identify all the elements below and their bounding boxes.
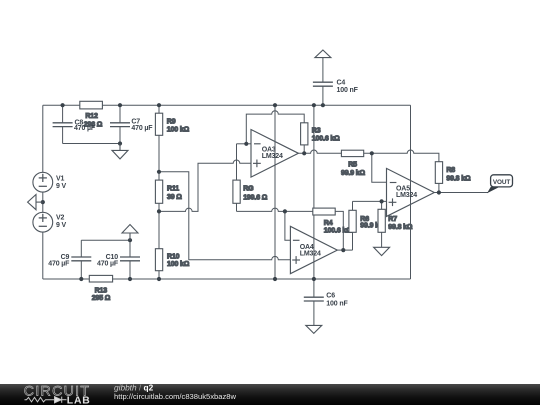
node OA3 output bbox=[302, 151, 306, 155]
node OA5 output bbox=[437, 190, 441, 194]
svg-text:LM324: LM324 bbox=[300, 251, 321, 258]
wire RG column bbox=[236, 144, 238, 212]
wire R7 column to ground bbox=[381, 201, 383, 247]
wire R4 right to OA4 output bbox=[335, 211, 343, 250]
node A R9/R11 bbox=[157, 170, 161, 174]
logo resistor zigzag bbox=[25, 397, 55, 402]
wire C4 stubs bbox=[322, 58, 324, 83]
wire R6 column bbox=[352, 201, 354, 250]
logo diode bbox=[55, 397, 67, 403]
wire R6/R7 tops to OA5 plus bbox=[353, 200, 387, 202]
svg-text:470 µF: 470 µF bbox=[97, 261, 119, 268]
svg-text:99.8 kΩ: 99.8 kΩ bbox=[388, 224, 413, 231]
resistor R6 bbox=[349, 210, 379, 232]
svg-text:39 Ω: 39 Ω bbox=[167, 194, 182, 201]
wire C9 stubs bbox=[80, 240, 82, 257]
svg-text:R12: R12 bbox=[85, 113, 98, 120]
ground left of V1/V2 node bbox=[28, 195, 43, 210]
ground below R7 bbox=[374, 247, 390, 255]
voltage source V1 bbox=[33, 172, 67, 192]
svg-text:100.6 kΩ: 100.6 kΩ bbox=[312, 136, 340, 143]
node OA3 minus bbox=[244, 142, 248, 146]
svg-text:R7: R7 bbox=[388, 216, 397, 223]
svg-text:LAB: LAB bbox=[67, 396, 91, 405]
wire C9 top to C10 top bbox=[81, 239, 130, 241]
wire right rail bbox=[410, 105, 412, 279]
ground above C10 bbox=[122, 225, 138, 241]
wire C8-C7 bottom bbox=[63, 143, 120, 145]
wire RG top to OA3 minus bbox=[237, 143, 252, 145]
svg-text:99.9 k: 99.9 k bbox=[360, 223, 379, 230]
voltage source V2 bbox=[33, 212, 67, 232]
wire mid vertical net x=275 bbox=[274, 105, 276, 279]
node bottom rail junctions bbox=[79, 277, 83, 281]
capacitor C8 bbox=[53, 120, 96, 133]
svg-text:R5: R5 bbox=[348, 161, 357, 168]
svg-text:RG: RG bbox=[243, 186, 254, 193]
node OA4 minus branch bbox=[283, 209, 287, 213]
node B R11/R10 bbox=[157, 209, 161, 213]
resistor R10 bbox=[155, 249, 189, 271]
node C10 top bbox=[128, 238, 132, 242]
svg-text:100 nF: 100 nF bbox=[337, 87, 359, 94]
svg-text:99.9 kΩ: 99.9 kΩ bbox=[341, 170, 366, 177]
wire C10 stubs bbox=[129, 240, 131, 257]
svg-text:LM324: LM324 bbox=[396, 192, 417, 199]
ground above C4 bbox=[315, 50, 331, 58]
svg-text:R11: R11 bbox=[167, 185, 179, 192]
resistor RG bbox=[233, 180, 268, 203]
capacitor C7 bbox=[110, 119, 153, 132]
svg-text:100.6 kΩ: 100.6 kΩ bbox=[324, 228, 352, 235]
wire bottom supply rail bbox=[43, 278, 411, 280]
resistor R11 bbox=[155, 180, 182, 203]
wire C8 stubs bbox=[62, 105, 64, 123]
wire OA4 output to R6 bottom bbox=[337, 249, 352, 251]
op-amp OA4 bbox=[290, 226, 337, 273]
op-amp OA3 bbox=[251, 130, 298, 178]
node top rail junctions bbox=[61, 103, 65, 107]
svg-text:470 µF: 470 µF bbox=[131, 125, 153, 132]
node OA4 output bbox=[341, 248, 345, 252]
resistor R4 bbox=[313, 208, 352, 235]
wire C7 stubs bbox=[119, 105, 121, 123]
capacitor C6 bbox=[304, 292, 349, 307]
wire OA3 feedback to R3 bbox=[246, 111, 304, 154]
svg-text:470 µF: 470 µF bbox=[74, 125, 96, 132]
svg-text:R9: R9 bbox=[167, 119, 176, 126]
ground below C6 bbox=[306, 325, 322, 333]
wire node A to OA4 plus input bbox=[159, 172, 290, 260]
CircuitLab logo wordmark bbox=[24, 383, 91, 399]
svg-text:R8: R8 bbox=[446, 167, 455, 174]
svg-text:100 kΩ: 100 kΩ bbox=[167, 126, 190, 133]
resistor R5 bbox=[341, 150, 366, 177]
ground below C7 bbox=[112, 144, 128, 159]
svg-text:199.6 Ω: 199.6 Ω bbox=[243, 195, 268, 202]
op-amp OA5 bbox=[387, 168, 435, 216]
capacitor C4 bbox=[313, 79, 359, 93]
node R7 top bbox=[380, 199, 384, 203]
wire left rail (V1/V2 column) bbox=[42, 105, 44, 279]
capacitor C9 bbox=[48, 254, 91, 268]
resistor R7 bbox=[378, 209, 413, 232]
wire mid vertical net x=314 bbox=[313, 105, 315, 279]
COMPONENT BODIES bbox=[80, 101, 471, 302]
resistor R13 bbox=[89, 275, 112, 302]
svg-text:http://circuitlab.com/c838uk5x: http://circuitlab.com/c838uk5xbaz8w bbox=[114, 392, 236, 401]
svg-text:9 V: 9 V bbox=[56, 222, 67, 229]
wire R9-R11-R10 column bbox=[158, 105, 160, 279]
resistor R8 bbox=[435, 162, 471, 184]
svg-text:C4: C4 bbox=[337, 79, 346, 86]
capacitor C10 bbox=[97, 254, 140, 268]
svg-text:R4: R4 bbox=[324, 220, 333, 227]
svg-text:VOUT: VOUT bbox=[493, 179, 510, 186]
wire top supply rail bbox=[43, 104, 411, 106]
node C7 bottom bbox=[118, 141, 122, 145]
svg-text:295 Ω: 295 Ω bbox=[92, 295, 111, 302]
svg-text:R13: R13 bbox=[95, 288, 108, 295]
wire RG bottom to R4 left bbox=[237, 208, 313, 211]
svg-text:100 nF: 100 nF bbox=[326, 300, 348, 307]
resistor R3 bbox=[301, 123, 341, 145]
svg-text:R3: R3 bbox=[312, 128, 321, 135]
node R5 right bbox=[370, 151, 374, 155]
svg-text:99.8 kΩ: 99.8 kΩ bbox=[446, 175, 471, 182]
wire C6 stubs bbox=[313, 279, 315, 297]
resistor R12 bbox=[80, 101, 103, 128]
svg-text:V2: V2 bbox=[56, 215, 65, 222]
wire branch to OA4 minus bbox=[285, 211, 291, 240]
wire node B to OA3 plus input bbox=[159, 160, 251, 211]
svg-text:V1: V1 bbox=[56, 176, 65, 183]
wire OA5 output to VOUT bbox=[434, 192, 488, 194]
svg-text:9 V: 9 V bbox=[56, 183, 67, 190]
svg-text:100 kΩ: 100 kΩ bbox=[167, 261, 190, 268]
resistor R9 bbox=[155, 113, 189, 135]
svg-text:470 µF: 470 µF bbox=[48, 261, 70, 268]
svg-text:C6: C6 bbox=[326, 292, 335, 299]
node VOUT flag bbox=[487, 175, 513, 193]
svg-text:LM324: LM324 bbox=[262, 153, 283, 160]
wire R5 junction to OA5 minus bbox=[372, 153, 387, 182]
node V1-V2 midpoint bbox=[41, 200, 45, 204]
wire OA3 output through R5 to R8 top bbox=[298, 150, 439, 193]
svg-text:R10: R10 bbox=[167, 253, 180, 260]
